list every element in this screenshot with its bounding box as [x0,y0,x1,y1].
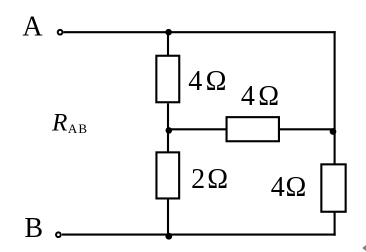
wire: middle-left junction to R3 [168,128,227,130]
wire: top junction down to R1 [167,32,169,56]
wire: R3 to right vertical rail [279,128,335,130]
svg-text:4 Ω: 4 Ω [241,81,278,112]
junction: bottom node [165,233,172,240]
wire: R1 to middle-left junction [167,103,169,152]
cursor artifact (grey diamond, bottom-right) [362,244,366,251]
svg-text:RAB: RAB [51,110,87,137]
svg-text:2 Ω: 2 Ω [191,164,227,195]
resistor R2 (2 ohm, lower left branch) [156,152,179,198]
wire: terminal A to top-right corner [64,31,336,33]
terminal B [56,232,61,237]
junction: middle-right node [330,128,337,135]
resistor R1 (4 ohm, upper left branch) [156,56,179,103]
wire: right rail top segment [334,31,336,164]
svg-text:4 Ω: 4 Ω [188,66,225,97]
wire: right rail bottom segment [334,212,336,236]
wire: R2 down to bottom junction [167,199,169,236]
resistor R4 (4 ohm, right branch) [321,164,345,211]
svg-text:4 Ω: 4 Ω [271,172,306,203]
svg-text:B: B [24,213,43,244]
terminal A [58,30,63,35]
wire: terminal B to bottom-right corner [62,234,336,236]
junction: middle-left node [166,127,173,134]
resistor R3 (4 ohm, middle horizontal) [227,117,279,141]
junction: top node [165,29,172,36]
svg-text:A: A [22,11,43,42]
